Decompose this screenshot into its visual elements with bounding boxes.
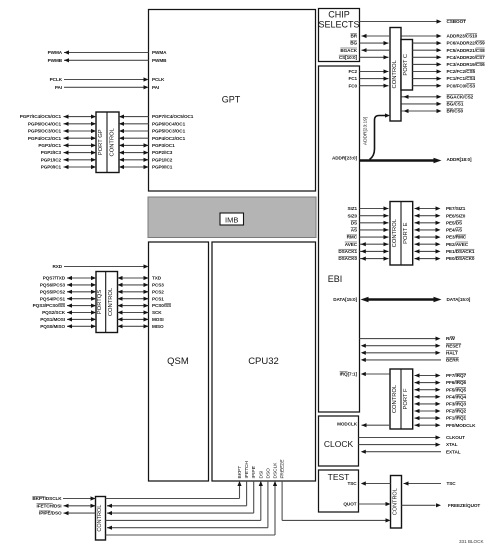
- wire CSBOOT: [360, 21, 441, 23]
- svg-text:CLOCK: CLOCK: [324, 439, 354, 449]
- wire PF5/{IRQ5} (port F row 2): [415, 389, 437, 391]
- block CLOCK: [319, 416, 359, 466]
- svg-text:XTAL: XTAL: [446, 442, 458, 447]
- svg-text:PF1/IRQ1: PF1/IRQ1: [446, 416, 466, 421]
- svg-text:EXTAL: EXTAL: [446, 449, 461, 454]
- wire DSO pin: [267, 481, 269, 528]
- wire PC4/ADDR20/{CS7}: [413, 56, 441, 58]
- port QS control box: [96, 272, 118, 333]
- port F control box: [390, 369, 413, 429]
- svg-text:PORTQS: PORTQS: [97, 290, 103, 315]
- svg-text:PCS1: PCS1: [152, 296, 164, 301]
- svg-text:FC1: FC1: [348, 76, 357, 81]
- bus IMB inter-module bus bar: [148, 197, 316, 238]
- wire PC6/ADDR22/{CS9}: [413, 42, 441, 44]
- block EBI: [319, 66, 360, 412]
- svg-text:MISO: MISO: [152, 324, 164, 329]
- block TEST: [319, 470, 359, 512]
- svg-text:EBI: EBI: [328, 274, 343, 284]
- svg-text:PGP6/OC4/OC1: PGP6/OC4/OC1: [28, 121, 62, 126]
- wire BKPT pin: [106, 498, 240, 500]
- svg-text:FC2: FC2: [348, 69, 357, 74]
- svg-text:PGP2/IC3: PGP2/IC3: [152, 150, 173, 155]
- svg-text:ADDR[23:0]: ADDR[23:0]: [332, 156, 358, 161]
- svg-text:PF0/MODCLK: PF0/MODCLK: [446, 423, 476, 428]
- svg-text:PGP4/OC2/OC1: PGP4/OC2/OC1: [152, 136, 186, 141]
- BDM control box bottom-left: [96, 497, 106, 541]
- svg-text:CONTROL: CONTROL: [392, 218, 398, 247]
- wire DSCLK pin: [106, 534, 276, 536]
- svg-text:CONTROL: CONTROL: [392, 488, 398, 515]
- svg-text:BKPT: BKPT: [237, 466, 243, 479]
- svg-text:AVEC: AVEC: [345, 242, 358, 247]
- svg-text:SIZ1: SIZ1: [348, 206, 358, 211]
- svg-text:IRQ[7:1]: IRQ[7:1]: [340, 372, 358, 377]
- block CPU32: [212, 242, 316, 481]
- svg-text:PWMA: PWMA: [48, 50, 63, 55]
- svg-text:PQS3/PCS0/SS: PQS3/PCS0/SS: [33, 303, 65, 308]
- wire PF4/{IRQ4} (port F row 3): [415, 396, 437, 398]
- wire CLKOUT: [359, 437, 437, 439]
- svg-text:FC0: FC0: [348, 83, 357, 88]
- svg-text:SIZ0: SIZ0: [348, 213, 358, 218]
- svg-text:FREEZE/QUOT: FREEZE/QUOT: [448, 503, 480, 508]
- svg-text:R/W: R/W: [446, 336, 455, 341]
- svg-text:PORT C: PORT C: [403, 54, 409, 76]
- svg-text:PQS4/PCS1: PQS4/PCS1: [40, 296, 66, 301]
- svg-text:PGP5/OC3/OC1: PGP5/OC3/OC1: [28, 129, 62, 134]
- svg-text:PC6/ADDR22/CS9: PC6/ADDR22/CS9: [447, 41, 486, 46]
- svg-text:GPT: GPT: [222, 95, 241, 105]
- svg-text:PORT F: PORT F: [403, 388, 409, 410]
- svg-text:PQS2/SCK: PQS2/SCK: [42, 310, 66, 315]
- svg-text:PGP7/IC4/OC5/OC1: PGP7/IC4/OC5/OC1: [20, 114, 62, 119]
- svg-text:QUOT: QUOT: [343, 501, 356, 506]
- svg-text:CHIP: CHIP: [328, 10, 350, 20]
- svg-text:PQS0/MISO: PQS0/MISO: [40, 324, 65, 329]
- svg-text:BGACK/CS2: BGACK/CS2: [447, 94, 474, 99]
- svg-text:CONTROL: CONTROL: [108, 287, 114, 316]
- svg-text:CPU32: CPU32: [248, 356, 279, 367]
- svg-text:PGP5/OC3/OC1: PGP5/OC3/OC1: [152, 129, 186, 134]
- svg-text:DSO: DSO: [265, 468, 271, 479]
- svg-text:BG/CS1: BG/CS1: [447, 101, 464, 106]
- svg-text:RXD: RXD: [52, 264, 62, 269]
- wire R/W: [360, 338, 437, 340]
- svg-text:PF3/IRQ3: PF3/IRQ3: [446, 401, 466, 406]
- svg-text:CONTROL: CONTROL: [97, 505, 103, 532]
- svg-text:PE7/SIZ1: PE7/SIZ1: [446, 206, 466, 211]
- svg-text:BERR: BERR: [446, 357, 460, 362]
- svg-text:DSCLK: DSCLK: [273, 462, 279, 479]
- svg-text:PGP3/OC1: PGP3/OC1: [38, 143, 61, 148]
- wire IFETCH pin: [246, 481, 248, 506]
- svg-text:TEST: TEST: [328, 472, 350, 482]
- svg-text:PQS6/PCS3: PQS6/PCS3: [40, 282, 66, 287]
- svg-text:CSBOOT: CSBOOT: [447, 19, 467, 24]
- wire IPIPE pin: [253, 481, 255, 513]
- svg-text:DSACK1: DSACK1: [338, 249, 357, 254]
- svg-text:PC0/FC0/CS3: PC0/FC0/CS3: [447, 83, 476, 88]
- wire EXTAL: [362, 451, 441, 453]
- svg-text:ADDR[18:0]: ADDR[18:0]: [447, 157, 473, 162]
- svg-text:PORT E: PORT E: [403, 222, 409, 244]
- svg-text:BR/CS0: BR/CS0: [447, 109, 464, 114]
- block QSM: [149, 242, 209, 481]
- svg-text:PORT GP: PORT GP: [98, 129, 104, 155]
- svg-text:RESET: RESET: [446, 343, 461, 348]
- port GP control box: [96, 112, 119, 173]
- wire RESET: [362, 345, 436, 347]
- block CHIP SELECTS: [319, 9, 360, 62]
- svg-text:CLKOUT: CLKOUT: [446, 435, 465, 440]
- wire PF6/{IRQ6} (port F row 1): [415, 382, 437, 384]
- svg-text:DATA[15:0]: DATA[15:0]: [333, 297, 357, 302]
- svg-text:SELECTS: SELECTS: [318, 20, 359, 30]
- wire PF3/{IRQ3} (port F row 4): [415, 403, 437, 405]
- svg-text:PCLK: PCLK: [152, 77, 165, 82]
- svg-text:PGP0/IC1: PGP0/IC1: [152, 165, 173, 170]
- svg-text:PGP6/OC4/OC1: PGP6/OC4/OC1: [152, 121, 186, 126]
- svg-text:IPIPE/DSO: IPIPE/DSO: [39, 511, 62, 516]
- wire {BGACK}/{CS2}: [402, 96, 441, 98]
- svg-text:AS: AS: [351, 227, 357, 232]
- svg-text:PC4/ADDR20/CS7: PC4/ADDR20/CS7: [447, 55, 486, 60]
- svg-text:PCS0/SS: PCS0/SS: [152, 303, 171, 308]
- svg-text:IPIPE: IPIPE: [251, 466, 257, 478]
- svg-text:331 BLOCK: 331 BLOCK: [459, 539, 484, 544]
- svg-text:MODCLK: MODCLK: [337, 422, 358, 427]
- svg-text:PF6/IRQ6: PF6/IRQ6: [446, 380, 466, 385]
- wire FREEZE pin: [281, 481, 283, 520]
- svg-text:CS[10:0]: CS[10:0]: [339, 55, 358, 60]
- svg-text:HALT: HALT: [446, 350, 458, 355]
- wire PF1/{IRQ1} (port F row 6): [415, 417, 437, 419]
- wire {BG}/{CS1}: [402, 103, 441, 105]
- svg-text:PQS1/MOSI: PQS1/MOSI: [40, 317, 65, 322]
- svg-text:DS: DS: [351, 220, 357, 225]
- wire PF2/{IRQ2} (port F row 5): [415, 410, 437, 412]
- svg-text:PGP0/IC1: PGP0/IC1: [41, 165, 62, 170]
- svg-text:DSI: DSI: [258, 471, 264, 479]
- wire {BR}/{CS0}: [402, 110, 441, 112]
- svg-text:PE4/AS: PE4/AS: [446, 227, 462, 232]
- svg-text:TSC: TSC: [347, 481, 357, 486]
- svg-text:BR: BR: [350, 34, 357, 39]
- svg-text:PCS2: PCS2: [152, 289, 164, 294]
- svg-text:PWMA: PWMA: [152, 50, 167, 55]
- svg-text:QSM: QSM: [167, 356, 189, 367]
- svg-text:PE3/RMC: PE3/RMC: [446, 235, 467, 240]
- svg-text:PWMB: PWMB: [48, 58, 63, 63]
- svg-text:PCS3: PCS3: [152, 282, 164, 287]
- svg-text:PC2/FC2/CS5: PC2/FC2/CS5: [447, 69, 476, 74]
- svg-text:IFETCH: IFETCH: [244, 461, 250, 479]
- svg-text:PGP2/IC3: PGP2/IC3: [41, 150, 62, 155]
- svg-text:CONTROL: CONTROL: [392, 59, 398, 88]
- svg-text:TSC: TSC: [447, 481, 457, 486]
- svg-text:FREEZE: FREEZE: [280, 460, 286, 479]
- svg-text:CONTROL: CONTROL: [109, 127, 115, 156]
- svg-text:PAI: PAI: [55, 85, 62, 90]
- port E control box: [390, 202, 413, 266]
- svg-text:IMB: IMB: [225, 215, 238, 224]
- wire ADDR[23:19] branch to port C control: [370, 116, 387, 160]
- svg-text:PGP7/IC4/OC5/OC1: PGP7/IC4/OC5/OC1: [152, 114, 194, 119]
- svg-text:PF4/IRQ4: PF4/IRQ4: [446, 394, 466, 399]
- svg-text:PF7/IRQ7: PF7/IRQ7: [446, 373, 466, 378]
- svg-text:PE1/DSACK1: PE1/DSACK1: [446, 249, 475, 254]
- wire HALT: [362, 352, 436, 354]
- wire XTAL: [359, 444, 437, 446]
- block GPT U-GPT: [149, 10, 316, 192]
- wire PF0/MODCLK (port F row 7): [415, 424, 437, 426]
- svg-text:CONTROL: CONTROL: [392, 384, 398, 413]
- svg-text:PE6/SIZ0: PE6/SIZ0: [446, 213, 466, 218]
- svg-text:DSACK0: DSACK0: [338, 256, 357, 261]
- svg-text:PGP4/OC2/OC1: PGP4/OC2/OC1: [28, 136, 62, 141]
- svg-text:DATA[15:0]: DATA[15:0]: [447, 297, 471, 302]
- svg-text:BG: BG: [350, 41, 357, 46]
- wire PC1/FC1/{CS4}: [413, 78, 441, 80]
- svg-text:PC1/FC1/CS4: PC1/FC1/CS4: [447, 76, 476, 81]
- svg-text:BGACK: BGACK: [340, 48, 357, 53]
- test control box bottom-right: [391, 476, 402, 529]
- wire PC3/ADDR19/{CS6}: [413, 63, 441, 65]
- svg-text:PCLK: PCLK: [50, 77, 63, 82]
- svg-text:PGP3/OC1: PGP3/OC1: [152, 143, 175, 148]
- svg-text:PWMB: PWMB: [152, 58, 167, 63]
- svg-text:TXD: TXD: [152, 276, 162, 281]
- svg-text:PE2/AVEC: PE2/AVEC: [446, 242, 469, 247]
- svg-text:BKPT/DSCLK: BKPT/DSCLK: [32, 496, 62, 501]
- svg-text:IFETCH/DSI: IFETCH/DSI: [37, 503, 62, 508]
- svg-text:PQS7/TXD: PQS7/TXD: [43, 276, 66, 281]
- wire PC5/ADDR21/{CS8}: [413, 49, 441, 51]
- svg-text:PGP1/IC2: PGP1/IC2: [152, 157, 173, 162]
- svg-text:PQS5/PCS2: PQS5/PCS2: [40, 289, 66, 294]
- svg-text:PE5/DS: PE5/DS: [446, 220, 462, 225]
- svg-text:PC5/ADDR21/CS8: PC5/ADDR21/CS8: [447, 48, 486, 53]
- wire ADDR23/{CS10}: [402, 35, 441, 37]
- wire BERR: [362, 359, 441, 361]
- svg-text:PF2/IRQ2: PF2/IRQ2: [446, 409, 466, 414]
- wire PF7/{IRQ7} (port F row 0): [415, 375, 437, 377]
- svg-text:SCK: SCK: [152, 310, 162, 315]
- svg-text:RMC: RMC: [347, 235, 358, 240]
- svg-text:MOSI: MOSI: [152, 317, 164, 322]
- port C box: [401, 40, 413, 91]
- wire PC2/FC2/{CS5}: [413, 71, 441, 73]
- svg-text:PGP1/IC2: PGP1/IC2: [41, 157, 62, 162]
- port C control box: [390, 28, 401, 122]
- svg-text:PAI: PAI: [152, 85, 159, 90]
- svg-text:ADDR23/CS10: ADDR23/CS10: [447, 34, 478, 39]
- svg-text:PF5/IRQ5: PF5/IRQ5: [446, 387, 466, 392]
- wire PC0/FC0/{CS3}: [413, 85, 441, 87]
- svg-text:ADDR[23:19]: ADDR[23:19]: [363, 117, 369, 145]
- svg-text:PE0/DSACK0: PE0/DSACK0: [446, 256, 475, 261]
- wire DSI pin: [106, 519, 261, 521]
- svg-text:PC3/ADDR19/CS6: PC3/ADDR19/CS6: [447, 62, 486, 67]
- IMB label box: [220, 213, 244, 225]
